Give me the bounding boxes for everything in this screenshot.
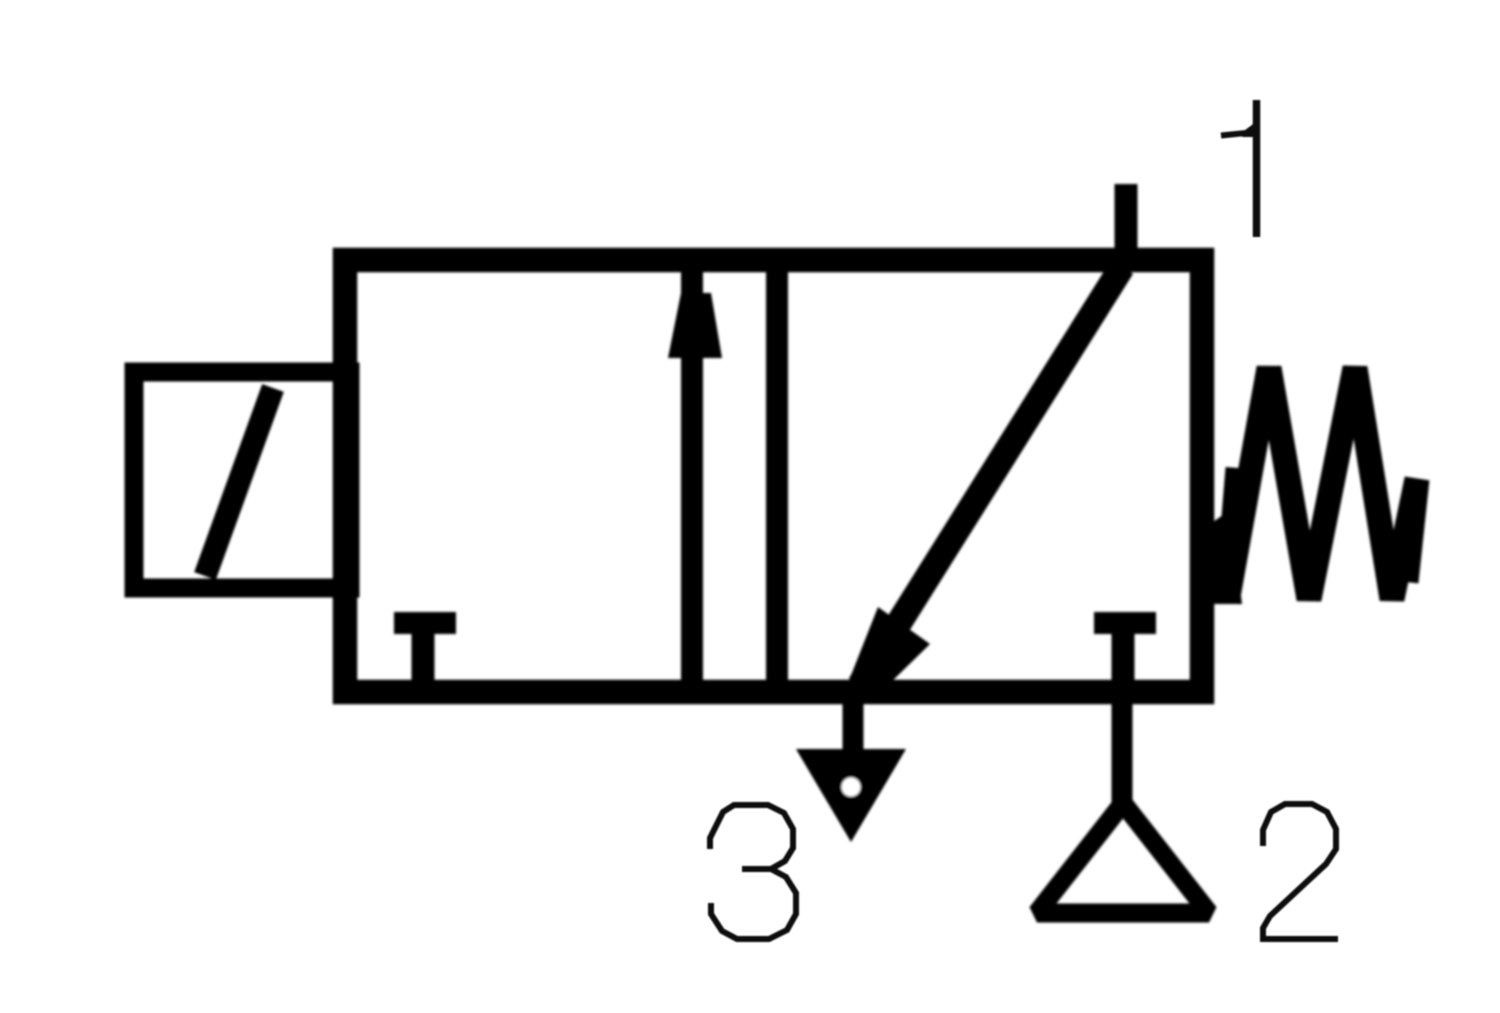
label 1 [1221, 100, 1257, 237]
label 2 [1263, 804, 1338, 939]
port 2 exhaust triangle [1037, 803, 1209, 913]
right square flow arrowhead (down-left) [846, 607, 930, 688]
right square flow line (diagonal 1 to 3) [860, 267, 1122, 685]
solenoid actuator box [134, 372, 350, 588]
left square flow arrowhead (up) [668, 293, 722, 358]
right square blocked-port T stem [1112, 623, 1135, 688]
port 3 arrowhead white notch [842, 778, 861, 797]
valve body (two-position envelope) [345, 260, 1202, 692]
left square blocked-port T bar [394, 612, 456, 634]
port 3 stub (bottom middle) [843, 692, 864, 766]
left square blocked-port T stem [412, 623, 435, 688]
position divider line [766, 249, 788, 703]
port 1 stub (top) [1115, 184, 1138, 272]
right square blocked-port T bar [1094, 612, 1156, 634]
solenoid diagonal stroke [205, 388, 273, 576]
port 2 stub (bottom right) [1112, 692, 1133, 808]
label 3 [710, 805, 796, 939]
return spring [1213, 510, 1242, 604]
port 3 exhaust arrowhead (down) [796, 749, 906, 842]
left square flow line (vertical) [681, 260, 703, 692]
